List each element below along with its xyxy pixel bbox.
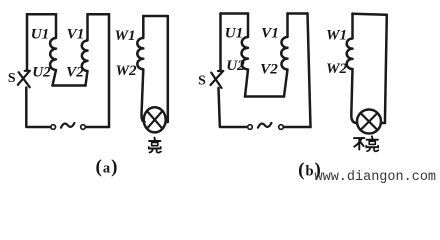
lamp X filament (b) — [361, 113, 378, 130]
svg-text:V1: V1 — [67, 26, 85, 43]
AC source terminal circle left (a) — [51, 125, 56, 130]
svg-text:W2: W2 — [326, 60, 348, 77]
svg-text:U1: U1 — [225, 24, 244, 41]
switch S (b) blade cross — [211, 71, 224, 88]
label: bu (not) under lamp (b) — [354, 138, 364, 149]
svg-text:V2: V2 — [260, 60, 278, 77]
svg-text:U2: U2 — [32, 64, 51, 81]
wire: (a) bottom wire right segment — [86, 126, 109, 129]
wire: (a) U2-V2 bottom link — [53, 84, 86, 87]
wire: (a) left wire upper segment — [26, 14, 29, 70]
wire: (b) lamp-loop right wire — [381, 15, 387, 123]
svg-text:W2: W2 — [115, 62, 137, 79]
svg-text:(a): (a) — [96, 157, 119, 178]
wire: (b) left wire upper segment — [219, 14, 222, 71]
wire: (b) top-right wire — [288, 12, 308, 15]
svg-text:W1: W1 — [114, 27, 135, 44]
wire: (b) bottom wire right segment — [284, 126, 311, 129]
wire: (b) right wire — [308, 14, 311, 128]
wire: (a) top-left wire — [27, 13, 56, 16]
svg-text:V1: V1 — [261, 24, 279, 41]
winding U1-U2 coil (a) — [50, 14, 56, 85]
switch S (a) blade cross — [18, 71, 30, 88]
label: liang (bright) under lamp (a) — [149, 138, 161, 153]
svg-text:S: S — [198, 73, 206, 88]
winding W1-W2 coil (b) — [347, 14, 357, 124]
wire: (b) U2-V2 bottom link — [245, 95, 284, 98]
AC source tilde (a) — [61, 123, 74, 128]
AC source terminal circle right (b) — [279, 125, 284, 130]
wire: (b) bottom wire left segment — [220, 126, 247, 127]
label: liang (bright) under lamp (b) — [366, 136, 378, 151]
winding U1-U2 coil (b) — [242, 14, 248, 97]
svg-text:S: S — [8, 70, 16, 85]
svg-text:U1: U1 — [31, 26, 50, 43]
wire: (b) top-left wire — [221, 12, 249, 15]
svg-text:V2: V2 — [66, 64, 84, 81]
wire: (a) left wire lower segment — [25, 88, 28, 126]
wire: (a) lamp-loop right wire — [166, 16, 168, 122]
wire: (a) bottom wire left segment — [26, 126, 50, 127]
wire: (a) right wire — [108, 14, 111, 127]
winding V1-V2 coil (b) — [281, 14, 287, 97]
lamp X filament (a) — [147, 111, 162, 129]
AC source terminal circle right (a) — [81, 125, 86, 130]
wire: (b) lamp-loop top wire — [353, 14, 387, 15]
wire: (a) lamp-loop top wire — [143, 15, 168, 18]
svg-text:U2: U2 — [226, 57, 245, 74]
winding V1-V2 coil (a) — [82, 14, 88, 85]
wire: (b) left wire lower segment — [219, 88, 220, 126]
svg-text:www.diangon.com: www.diangon.com — [315, 170, 437, 185]
wire: (a) top-right wire — [88, 13, 110, 16]
lamp bulb circle (b) — [357, 110, 381, 134]
winding W1-W2 coil (a) — [137, 16, 144, 122]
AC source terminal circle left (b) — [248, 125, 253, 130]
AC source tilde (b) — [258, 123, 271, 128]
svg-text:W1: W1 — [326, 26, 347, 43]
lamp bulb circle (a) — [144, 107, 166, 132]
